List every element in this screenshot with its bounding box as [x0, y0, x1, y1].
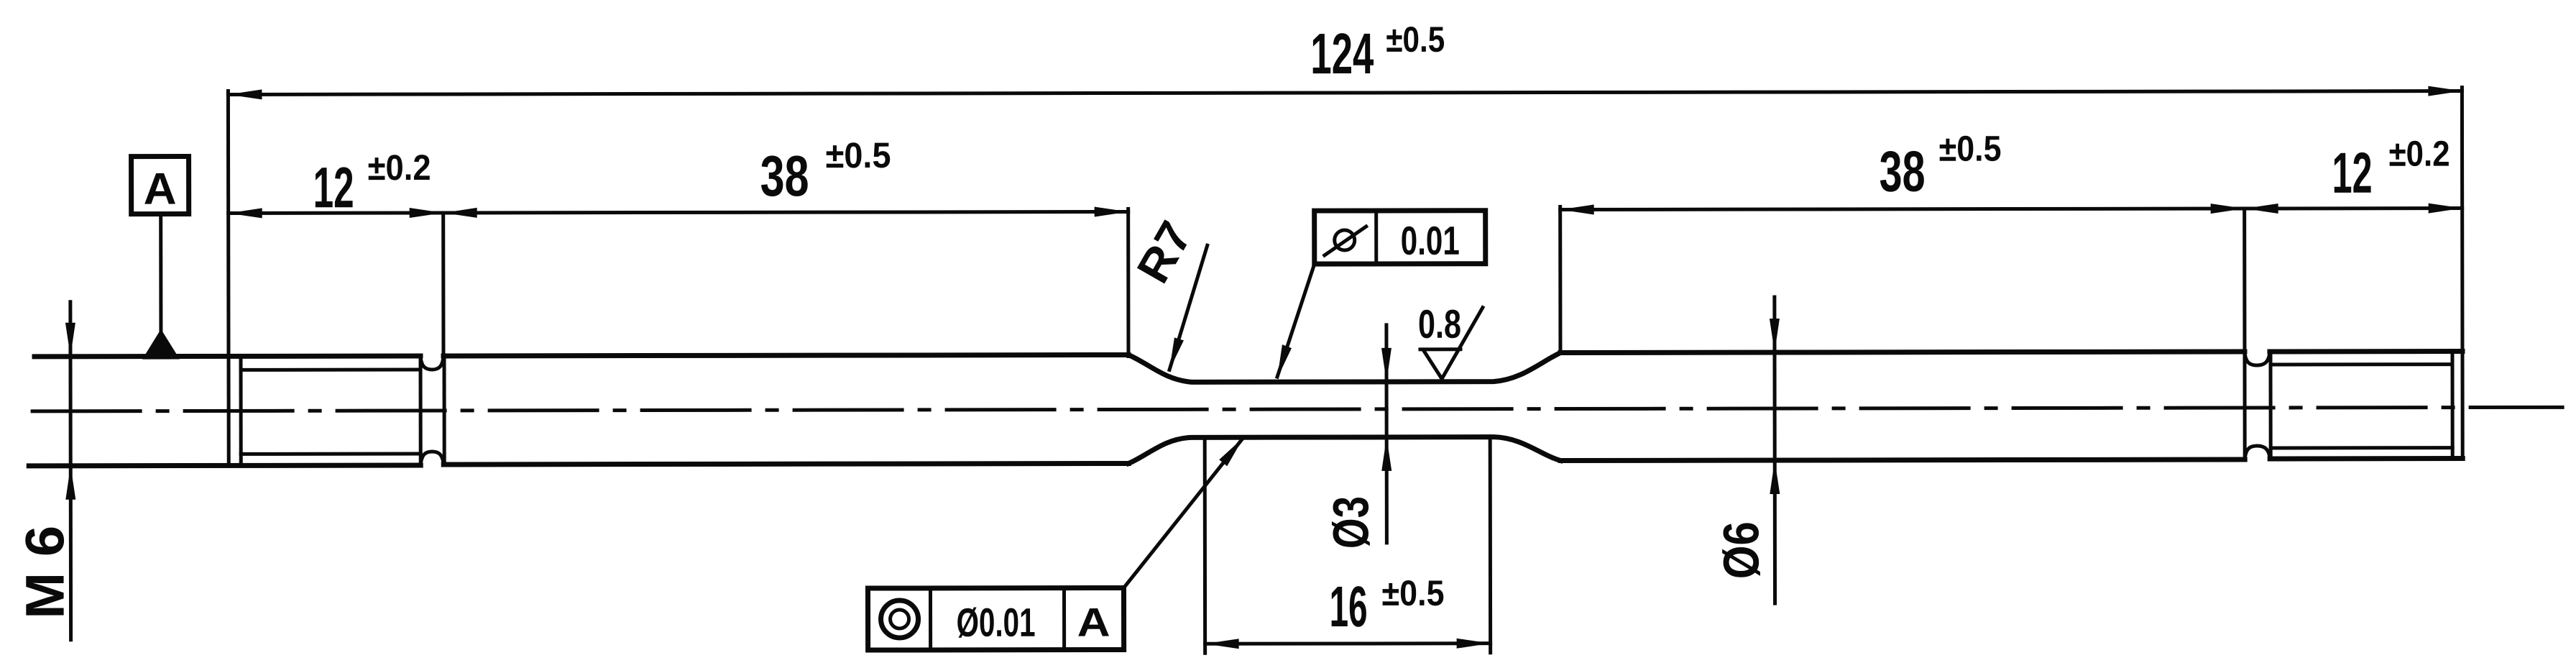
arrow 12 left at boundary: [410, 208, 443, 218]
arrow runout leader: [1277, 344, 1292, 378]
right end face of specimen: [2460, 88, 2465, 459]
concentricity symbol inner circle: [891, 610, 909, 628]
svg-text:12: 12: [2332, 141, 2373, 205]
svg-text:38: 38: [1880, 140, 1926, 204]
diameter 6 dimension line right: [1772, 297, 1777, 603]
arrow M6 bottom: [65, 466, 75, 500]
datum A stem: [159, 214, 162, 333]
runout leader: [1277, 264, 1315, 377]
svg-text:16: 16: [1329, 575, 1367, 639]
svg-text:±0.5: ±0.5: [1938, 129, 2001, 169]
svg-text:M 6: M 6: [14, 526, 75, 619]
thread right bottom outline: [2270, 456, 2462, 461]
arrow 16 right: [1457, 639, 1491, 649]
extension line 12/38 left: [441, 213, 445, 358]
runout symbol circle: [1335, 230, 1355, 250]
dimension line 38 right: [1560, 209, 2245, 209]
concentricity symbol outer circle: [881, 600, 919, 638]
shoulder bottom line right: [1560, 459, 2245, 460]
arrow 38 right at boundary: [2211, 204, 2245, 214]
runout frame divider: [1374, 211, 1378, 264]
datum A triangle: [142, 329, 180, 360]
arrow M6 top: [65, 323, 75, 357]
datum A box: [132, 157, 189, 214]
R7 leader: [1169, 245, 1207, 370]
arrow 38 right at left end: [1560, 204, 1594, 214]
concentricity feature control frame: [868, 587, 1123, 650]
arrow 124 right: [2428, 86, 2462, 96]
centerline axis: [32, 407, 2562, 411]
runout symbol slash: [1325, 227, 1366, 255]
arrow dia3 top: [1381, 348, 1391, 382]
runout feature control frame: [1315, 211, 1486, 264]
undercut groove right top: [2245, 352, 2270, 365]
svg-text:124: 124: [1310, 22, 1374, 86]
svg-text:Ø3: Ø3: [1322, 496, 1379, 549]
surface finish symbol bar: [1420, 347, 1460, 351]
thread minor diameter bottom right: [2271, 446, 2452, 449]
extension line 16 left: [1203, 439, 1207, 653]
thread minor diameter top left: [241, 368, 420, 372]
svg-text:Ø0.01: Ø0.01: [957, 600, 1036, 645]
shoulder top line right: [1560, 352, 2245, 352]
concentricity frame divider 1: [929, 588, 932, 650]
arrow concentricity leader: [1219, 437, 1243, 466]
shoulder face left undercut: [442, 356, 446, 465]
undercut groove right bottom: [2245, 446, 2270, 459]
svg-text:12: 12: [313, 155, 354, 219]
extension line 16 right: [1489, 439, 1492, 653]
arrow 124 left: [228, 89, 262, 99]
concentricity frame divider 2: [1062, 588, 1066, 650]
arrow 38 left at right end: [1095, 206, 1128, 216]
dimension line 12 right: [2245, 206, 2462, 210]
arrow dia6 bottom: [1770, 460, 1780, 494]
surface finish symbol vee and slash: [1424, 308, 1483, 379]
arrow R7 leader: [1169, 337, 1184, 370]
thread chamfer line right: [2450, 352, 2454, 459]
arrow 16 left: [1205, 639, 1239, 649]
extension line 38 right boundary left side: [1126, 209, 1130, 356]
svg-text:A: A: [1077, 600, 1110, 645]
extension line 38 left boundary right side: [1558, 207, 1562, 353]
thread start face right: [2268, 352, 2272, 459]
fillet R7 and neck top outline: [1128, 353, 1560, 383]
svg-text:38: 38: [760, 144, 809, 208]
thread right top outline: [2270, 349, 2462, 354]
shoulder face right undercut: [2242, 352, 2246, 459]
thread minor diameter bottom left: [241, 452, 420, 456]
arrow dia3 bottom: [1381, 437, 1391, 471]
thread chamfer line left: [239, 356, 242, 465]
shoulder bottom line left: [443, 463, 1128, 464]
extension line 38/12 right: [2242, 209, 2246, 352]
dimension line 12 left: [229, 211, 443, 214]
wire top outline left thread extension: [34, 354, 420, 360]
thread minor diameter top right: [2271, 362, 2452, 366]
arrow 12 left at left end: [229, 208, 262, 218]
diameter 3 dimension line: [1384, 325, 1388, 543]
svg-text:0.01: 0.01: [1401, 218, 1460, 263]
dimension line 38 left: [443, 211, 1128, 212]
left end face of specimen: [226, 91, 231, 465]
M6 dimension line vertical: [68, 302, 73, 640]
dimension line 124: [228, 91, 2462, 95]
svg-text:0.8: 0.8: [1418, 301, 1461, 347]
svg-text:±0.2: ±0.2: [2389, 134, 2450, 174]
arrow 38 left at boundary: [443, 208, 477, 218]
arrow 12 right at right end: [2429, 204, 2462, 214]
svg-text:±0.5: ±0.5: [826, 135, 891, 175]
arrow 12 right at boundary: [2245, 204, 2278, 214]
fillet R7 and neck bottom outline: [1128, 437, 1560, 464]
svg-text:±0.5: ±0.5: [1386, 19, 1445, 60]
undercut groove left top: [420, 356, 443, 370]
thread end face left: [418, 356, 422, 465]
concentricity leader: [1123, 437, 1243, 587]
wire bottom outline left thread extension: [29, 463, 420, 469]
svg-text:±0.5: ±0.5: [1381, 573, 1444, 613]
svg-text:Ø6: Ø6: [1713, 521, 1769, 579]
undercut groove left bottom: [420, 452, 443, 465]
svg-text:±0.2: ±0.2: [368, 147, 431, 188]
svg-text:A: A: [144, 165, 177, 214]
shoulder top line left: [443, 355, 1128, 355]
dimension line 16: [1205, 641, 1491, 646]
arrow dia6 top: [1770, 319, 1780, 352]
